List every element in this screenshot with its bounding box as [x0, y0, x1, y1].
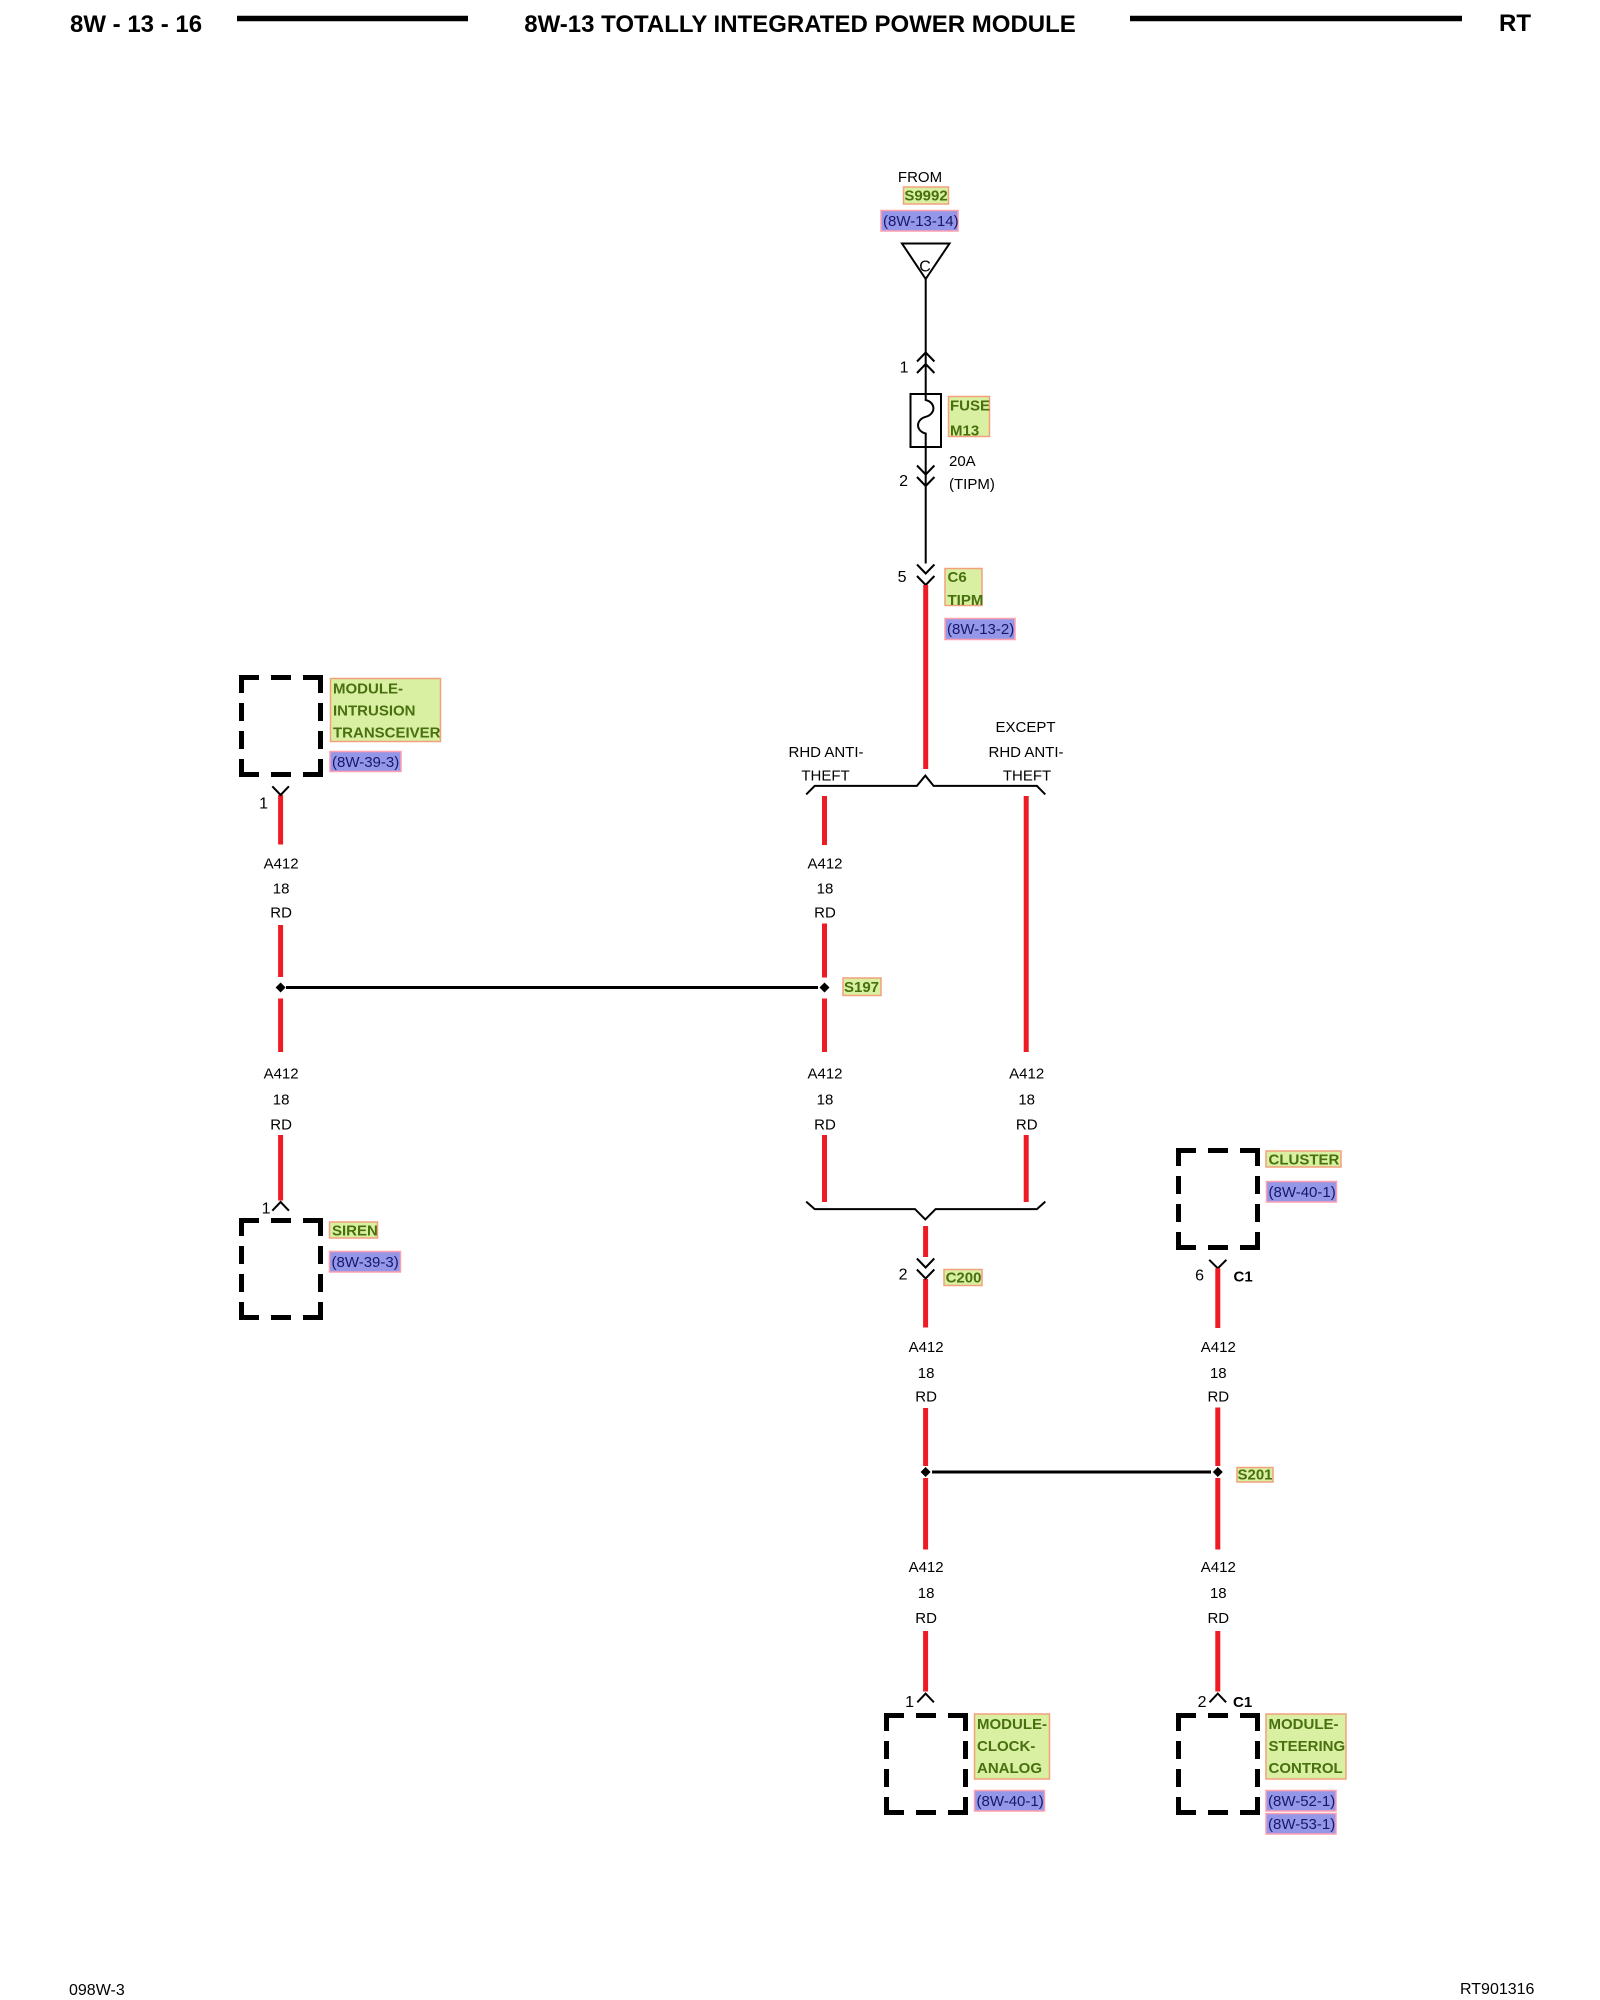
- svg-text:C: C: [919, 259, 931, 276]
- svg-text:C1: C1: [1234, 1269, 1253, 1286]
- svg-text:A412: A412: [264, 856, 299, 873]
- svg-text:INTRUSION: INTRUSION: [333, 703, 416, 720]
- svg-text:8W - 13 - 16: 8W - 13 - 16: [70, 11, 202, 38]
- svg-text:CLOCK-: CLOCK-: [977, 1738, 1035, 1755]
- svg-text:18: 18: [1210, 1585, 1227, 1602]
- svg-text:(8W-40-1): (8W-40-1): [1269, 1184, 1336, 1201]
- svg-text:S201: S201: [1237, 1467, 1272, 1484]
- svg-text:18: 18: [817, 1092, 834, 1109]
- svg-text:RHD ANTI-: RHD ANTI-: [989, 744, 1064, 761]
- svg-text:CONTROL: CONTROL: [1269, 1760, 1343, 1777]
- svg-text:2: 2: [1198, 1694, 1207, 1711]
- svg-text:MODULE-: MODULE-: [977, 1716, 1047, 1733]
- svg-text:1: 1: [905, 1694, 914, 1711]
- svg-text:RT901316: RT901316: [1460, 1981, 1535, 1998]
- svg-text:C1: C1: [1233, 1694, 1252, 1711]
- svg-text:RD: RD: [814, 1117, 836, 1134]
- svg-text:1: 1: [259, 796, 268, 813]
- svg-text:TIPM: TIPM: [948, 592, 984, 609]
- svg-text:MODULE-: MODULE-: [1269, 1716, 1339, 1733]
- svg-text:FROM: FROM: [898, 169, 942, 186]
- svg-text:S197: S197: [844, 979, 879, 996]
- svg-text:C200: C200: [946, 1270, 982, 1287]
- svg-text:18: 18: [273, 881, 290, 898]
- svg-text:RD: RD: [915, 1610, 937, 1627]
- svg-text:RD: RD: [814, 905, 836, 922]
- svg-text:18: 18: [817, 881, 834, 898]
- svg-text:MODULE-: MODULE-: [333, 681, 403, 698]
- svg-text:5: 5: [898, 569, 907, 586]
- svg-text:RD: RD: [1207, 1389, 1229, 1406]
- svg-text:18: 18: [1018, 1092, 1035, 1109]
- svg-text:A412: A412: [909, 1339, 944, 1356]
- svg-text:S9992: S9992: [904, 188, 947, 205]
- svg-text:18: 18: [918, 1365, 935, 1382]
- svg-text:(TIPM): (TIPM): [949, 476, 995, 493]
- svg-text:RD: RD: [915, 1389, 937, 1406]
- svg-text:CLUSTER: CLUSTER: [1269, 1152, 1340, 1169]
- svg-text:098W-3: 098W-3: [69, 1982, 125, 1999]
- svg-text:THEFT: THEFT: [1003, 768, 1051, 785]
- svg-text:RD: RD: [270, 1117, 292, 1134]
- svg-text:A412: A412: [1201, 1559, 1236, 1576]
- svg-text:8W-13 TOTALLY INTEGRATED POWER: 8W-13 TOTALLY INTEGRATED POWER MODULE: [524, 11, 1076, 38]
- svg-text:18: 18: [273, 1092, 290, 1109]
- svg-text:A412: A412: [807, 1066, 842, 1083]
- svg-text:2: 2: [899, 1267, 908, 1284]
- svg-text:RD: RD: [1207, 1610, 1229, 1627]
- svg-text:M13: M13: [950, 423, 979, 440]
- svg-text:TRANSCEIVER: TRANSCEIVER: [333, 725, 441, 742]
- svg-text:(8W-53-1): (8W-53-1): [1268, 1816, 1335, 1833]
- svg-text:(8W-13-2): (8W-13-2): [947, 621, 1014, 638]
- svg-text:A412: A412: [807, 856, 842, 873]
- svg-text:(8W-52-1): (8W-52-1): [1268, 1793, 1335, 1810]
- svg-text:2: 2: [899, 473, 908, 490]
- svg-text:(8W-39-3): (8W-39-3): [332, 754, 399, 771]
- svg-text:RD: RD: [1016, 1117, 1038, 1134]
- svg-text:C6: C6: [948, 569, 967, 586]
- svg-text:A412: A412: [909, 1559, 944, 1576]
- svg-text:RD: RD: [270, 905, 292, 922]
- svg-text:A412: A412: [1201, 1339, 1236, 1356]
- svg-text:20A: 20A: [949, 453, 976, 470]
- svg-text:1: 1: [900, 360, 909, 377]
- svg-text:6: 6: [1195, 1268, 1204, 1285]
- svg-text:(8W-40-1): (8W-40-1): [977, 1793, 1044, 1810]
- svg-text:A412: A412: [264, 1066, 299, 1083]
- svg-text:FUSE: FUSE: [950, 398, 990, 415]
- svg-text:THEFT: THEFT: [801, 768, 849, 785]
- svg-text:18: 18: [1210, 1365, 1227, 1382]
- svg-text:A412: A412: [1009, 1066, 1044, 1083]
- svg-text:EXCEPT: EXCEPT: [995, 719, 1055, 736]
- svg-text:STEERING: STEERING: [1269, 1738, 1346, 1755]
- svg-text:(8W-13-14): (8W-13-14): [883, 213, 959, 230]
- svg-text:ANALOG: ANALOG: [977, 1760, 1042, 1777]
- svg-text:1: 1: [262, 1201, 271, 1218]
- svg-text:18: 18: [918, 1585, 935, 1602]
- svg-text:SIREN: SIREN: [332, 1223, 378, 1240]
- svg-text:RHD ANTI-: RHD ANTI-: [789, 744, 864, 761]
- svg-text:RT: RT: [1499, 10, 1531, 37]
- svg-text:(8W-39-3): (8W-39-3): [332, 1254, 399, 1271]
